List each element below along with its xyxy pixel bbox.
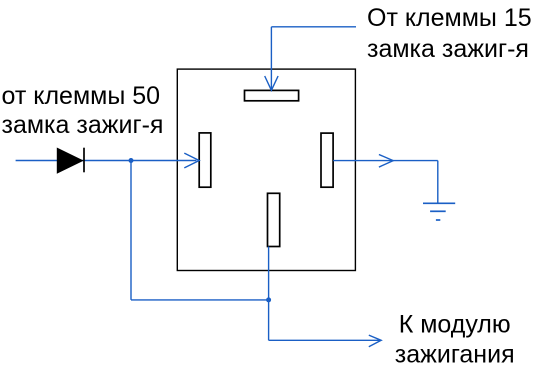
arrowhead into left contact — [184, 153, 199, 168]
wire: bottom horizontal to node — [131, 299, 269, 301]
wire: from terminal 15 label, vertical down into top contact — [270, 27, 272, 90]
diode VD (anode left, cathode bar right) — [57, 148, 84, 173]
relay contact pad bottom (terminal 85) — [268, 193, 280, 246]
relay contact pad right (terminal 87) — [321, 133, 333, 187]
arrowhead into top contact — [265, 76, 278, 90]
relay box K1 — [177, 69, 355, 270]
wire: output from right contact — [333, 160, 438, 162]
label: от клеммы 50 замка зажиг-я — [2, 82, 164, 139]
svg-text:от клеммы 50: от клеммы 50 — [2, 82, 161, 110]
wire: from terminal 15 label, horizontal — [271, 26, 356, 28]
junction node bottom — [266, 297, 271, 302]
wire: down to ground — [437, 161, 439, 204]
svg-text:От клеммы 15: От клеммы 15 — [367, 4, 532, 32]
wire: to ignition module with arrowhead — [269, 335, 382, 347]
wire: from bottom contact down — [268, 247, 270, 341]
svg-text:К модулю: К модулю — [399, 310, 511, 338]
svg-text:зажигания: зажигания — [395, 340, 515, 368]
label: К модулю зажигания — [395, 310, 515, 368]
wire: input from terminal 50 — [16, 160, 197, 162]
wire: down from junction — [130, 161, 132, 300]
svg-text:замка зажиг-я: замка зажиг-я — [2, 111, 164, 139]
ground symbol — [423, 203, 455, 220]
svg-text:замка зажиг-я: замка зажиг-я — [367, 35, 529, 63]
label: От клеммы 15 замка зажиг-я — [367, 4, 532, 63]
arrowhead on output wire — [379, 155, 393, 168]
relay contact pad top (terminal 86) — [245, 90, 299, 100]
relay contact pad left (terminal 30) — [199, 133, 211, 187]
junction node on input wire — [129, 158, 134, 163]
